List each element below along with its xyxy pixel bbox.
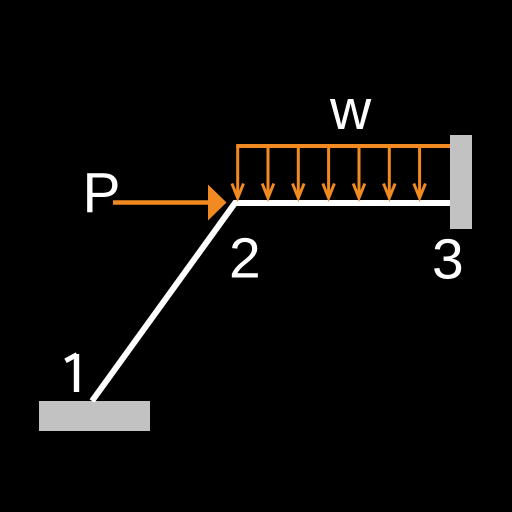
support base at node 1	[39, 401, 150, 431]
node label 1	[66, 354, 78, 392]
svg-text:3: 3	[432, 228, 464, 292]
distributed load arrow 4	[323, 146, 335, 198]
svg-text:w: w	[329, 78, 372, 142]
svg-text:2: 2	[229, 227, 261, 291]
distributed load arrow 1	[232, 146, 244, 198]
force P arrow shaft	[113, 200, 210, 205]
svg-text:P: P	[83, 161, 121, 225]
distributed load arrow 5	[353, 146, 365, 198]
distributed load arrow 2	[262, 146, 274, 198]
force P arrowhead	[208, 185, 227, 221]
distributed load arrow 6	[384, 146, 396, 198]
distributed load arrow 7	[414, 146, 426, 198]
wall support at node 3	[450, 135, 472, 229]
frame members (node 1 to node 2 to node 3)	[92, 203, 450, 401]
distributed load w top line	[236, 144, 450, 148]
distributed load arrow 3	[293, 146, 305, 198]
